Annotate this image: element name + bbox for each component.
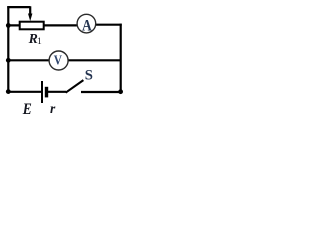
svg-text:A: A: [82, 18, 92, 35]
switch S lever (open): [66, 80, 84, 93]
svg-text:r: r: [50, 101, 56, 116]
wire: middle wire (voltmeter branch): [8, 59, 121, 61]
battery cell E,r : long plate: [41, 81, 43, 103]
svg-text:S: S: [85, 67, 93, 83]
wire: right rail: [120, 24, 122, 93]
resistor R1 (rheostat body): [20, 22, 44, 30]
label E: [22, 101, 32, 118]
ammeter A: [77, 14, 96, 35]
background: [0, 0, 128, 117]
wire: bottom wire left (rail to battery): [8, 91, 41, 93]
wire: bottom wire right (switch to rail): [81, 91, 121, 93]
svg-text:E: E: [22, 101, 32, 117]
junction dot (left, bottom wire): [6, 89, 11, 94]
wire: top wire (left rail to ammeter): [8, 24, 80, 26]
wire: bottom wire mid (battery to switch): [48, 91, 66, 93]
svg-text:1: 1: [37, 37, 42, 47]
wire: top wire right segment: [93, 24, 122, 26]
wire: left rail: [7, 6, 9, 92]
junction dot (left, middle wire): [6, 58, 11, 63]
rheostat slider arrowhead: [28, 14, 32, 22]
svg-text:V: V: [54, 52, 62, 67]
junction dot (left, top wire): [6, 23, 11, 28]
label R1: [28, 31, 42, 47]
label S: [85, 67, 93, 83]
wire: rheostat slider feed (up-over loop): [7, 6, 30, 15]
junction dot (right, bottom wire): [118, 89, 123, 94]
label r: [50, 101, 56, 116]
voltmeter V: [49, 51, 68, 70]
battery cell E,r : short thick plate: [45, 87, 48, 98]
